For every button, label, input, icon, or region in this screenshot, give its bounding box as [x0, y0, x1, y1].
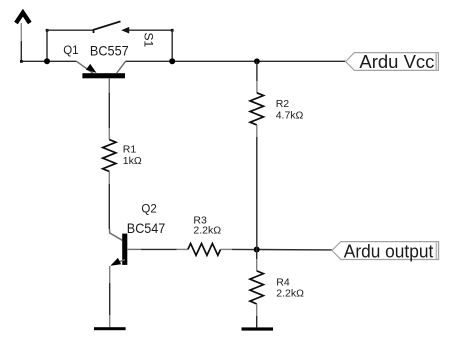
resistor R3 left pin	[177, 248, 188, 250]
wire left horizontal to Q1 emitter	[21, 60, 76, 62]
transistor Q2 emitter arrow (NPN, points outward)	[109, 258, 122, 269]
wire Vcc node down to R2	[256, 61, 258, 81]
wire output node down to R4	[256, 250, 258, 260]
svg-text:R2: R2	[276, 98, 290, 110]
wire Q1 base to R1	[108, 93, 110, 128]
svg-text:4.7kΩ: 4.7kΩ	[276, 109, 304, 121]
wire R3 to output node	[232, 248, 332, 251]
transistor Q2 emitter lead	[112, 260, 125, 265]
resistor R4 top pin	[256, 259, 258, 271]
transistor Q1 base bar	[82, 73, 125, 78]
wire Q2 base to R3	[141, 248, 177, 250]
wire switch top left segment	[47, 29, 94, 31]
wire Q2 emitter to ground	[109, 266, 111, 283]
wire (pin into ground)	[109, 315, 111, 327]
svg-text:Ardu Vcc: Ardu Vcc	[359, 52, 434, 72]
svg-text:R1: R1	[123, 144, 137, 156]
node endpoint square at switch top-right corner	[171, 29, 174, 32]
wire switch left vertical	[46, 30, 48, 61]
wire R2 to output node	[256, 137, 258, 250]
svg-text:2.2kΩ: 2.2kΩ	[193, 225, 221, 237]
wire	[109, 283, 111, 315]
wire from supply arrow down	[20, 23, 22, 41]
switch S1 lever	[94, 21, 121, 33]
resistor R2 zigzag	[250, 93, 263, 125]
wire switch right vertical	[171, 30, 173, 61]
resistor R1 zigzag	[103, 140, 116, 172]
svg-text:Q2: Q2	[141, 203, 156, 215]
node endpoint square at left corner	[20, 60, 23, 63]
node junction dot D (output node)	[254, 247, 260, 253]
node junction dot B (collector / Vcc node)	[169, 58, 175, 64]
resistor R1 bottom pin	[108, 171, 110, 184]
transistor Q2 base bar	[122, 234, 127, 265]
node endpoint square at switch top-left corner	[46, 29, 49, 32]
net flag Ardu Vcc	[346, 52, 439, 72]
svg-text:S1: S1	[142, 32, 156, 47]
net flag Ardu output	[332, 241, 439, 261]
resistor R1 top pin	[108, 128, 110, 140]
node junction dot C (R2 top)	[254, 58, 260, 64]
wire R4 to ground	[256, 316, 258, 327]
svg-text:Ardu output: Ardu output	[344, 241, 434, 261]
svg-text:R4: R4	[276, 276, 290, 288]
ground (under R4)	[242, 327, 274, 330]
wire R1 to Q2 collector	[108, 184, 110, 229]
transistor Q1 collector lead	[117, 61, 126, 73]
ground (under Q2)	[94, 327, 126, 330]
transistor Q1 emitter lead	[77, 61, 94, 73]
switch S1 contact arrow	[121, 27, 129, 34]
resistor R2 bottom pin	[256, 125, 258, 137]
svg-text:2.2kΩ: 2.2kΩ	[276, 288, 304, 300]
resistor R4 zigzag	[250, 271, 263, 304]
supply arrow (power symbol)	[16, 13, 30, 23]
wire switch top right segment	[129, 29, 173, 31]
resistor R3 zigzag	[188, 244, 221, 256]
transistor Q1 emitter arrow (PNP, points into base)	[86, 64, 99, 76]
svg-text:BC547: BC547	[127, 220, 166, 236]
resistor R2 top pin	[256, 81, 258, 93]
transistor Q1 base pin down	[108, 78, 110, 93]
resistor R3 right pin	[221, 248, 233, 250]
wire top rail from Q1 collector to flag	[126, 60, 346, 62]
transistor Q2 base pin right	[127, 248, 141, 250]
transistor Q2 collector lead	[110, 229, 123, 240]
svg-text:Q1: Q1	[63, 45, 78, 57]
svg-text:BC557: BC557	[90, 42, 129, 58]
node junction dot A (emitter node)	[44, 58, 50, 64]
svg-text:1kΩ: 1kΩ	[123, 155, 142, 167]
resistor R4 bottom pin	[256, 304, 258, 316]
